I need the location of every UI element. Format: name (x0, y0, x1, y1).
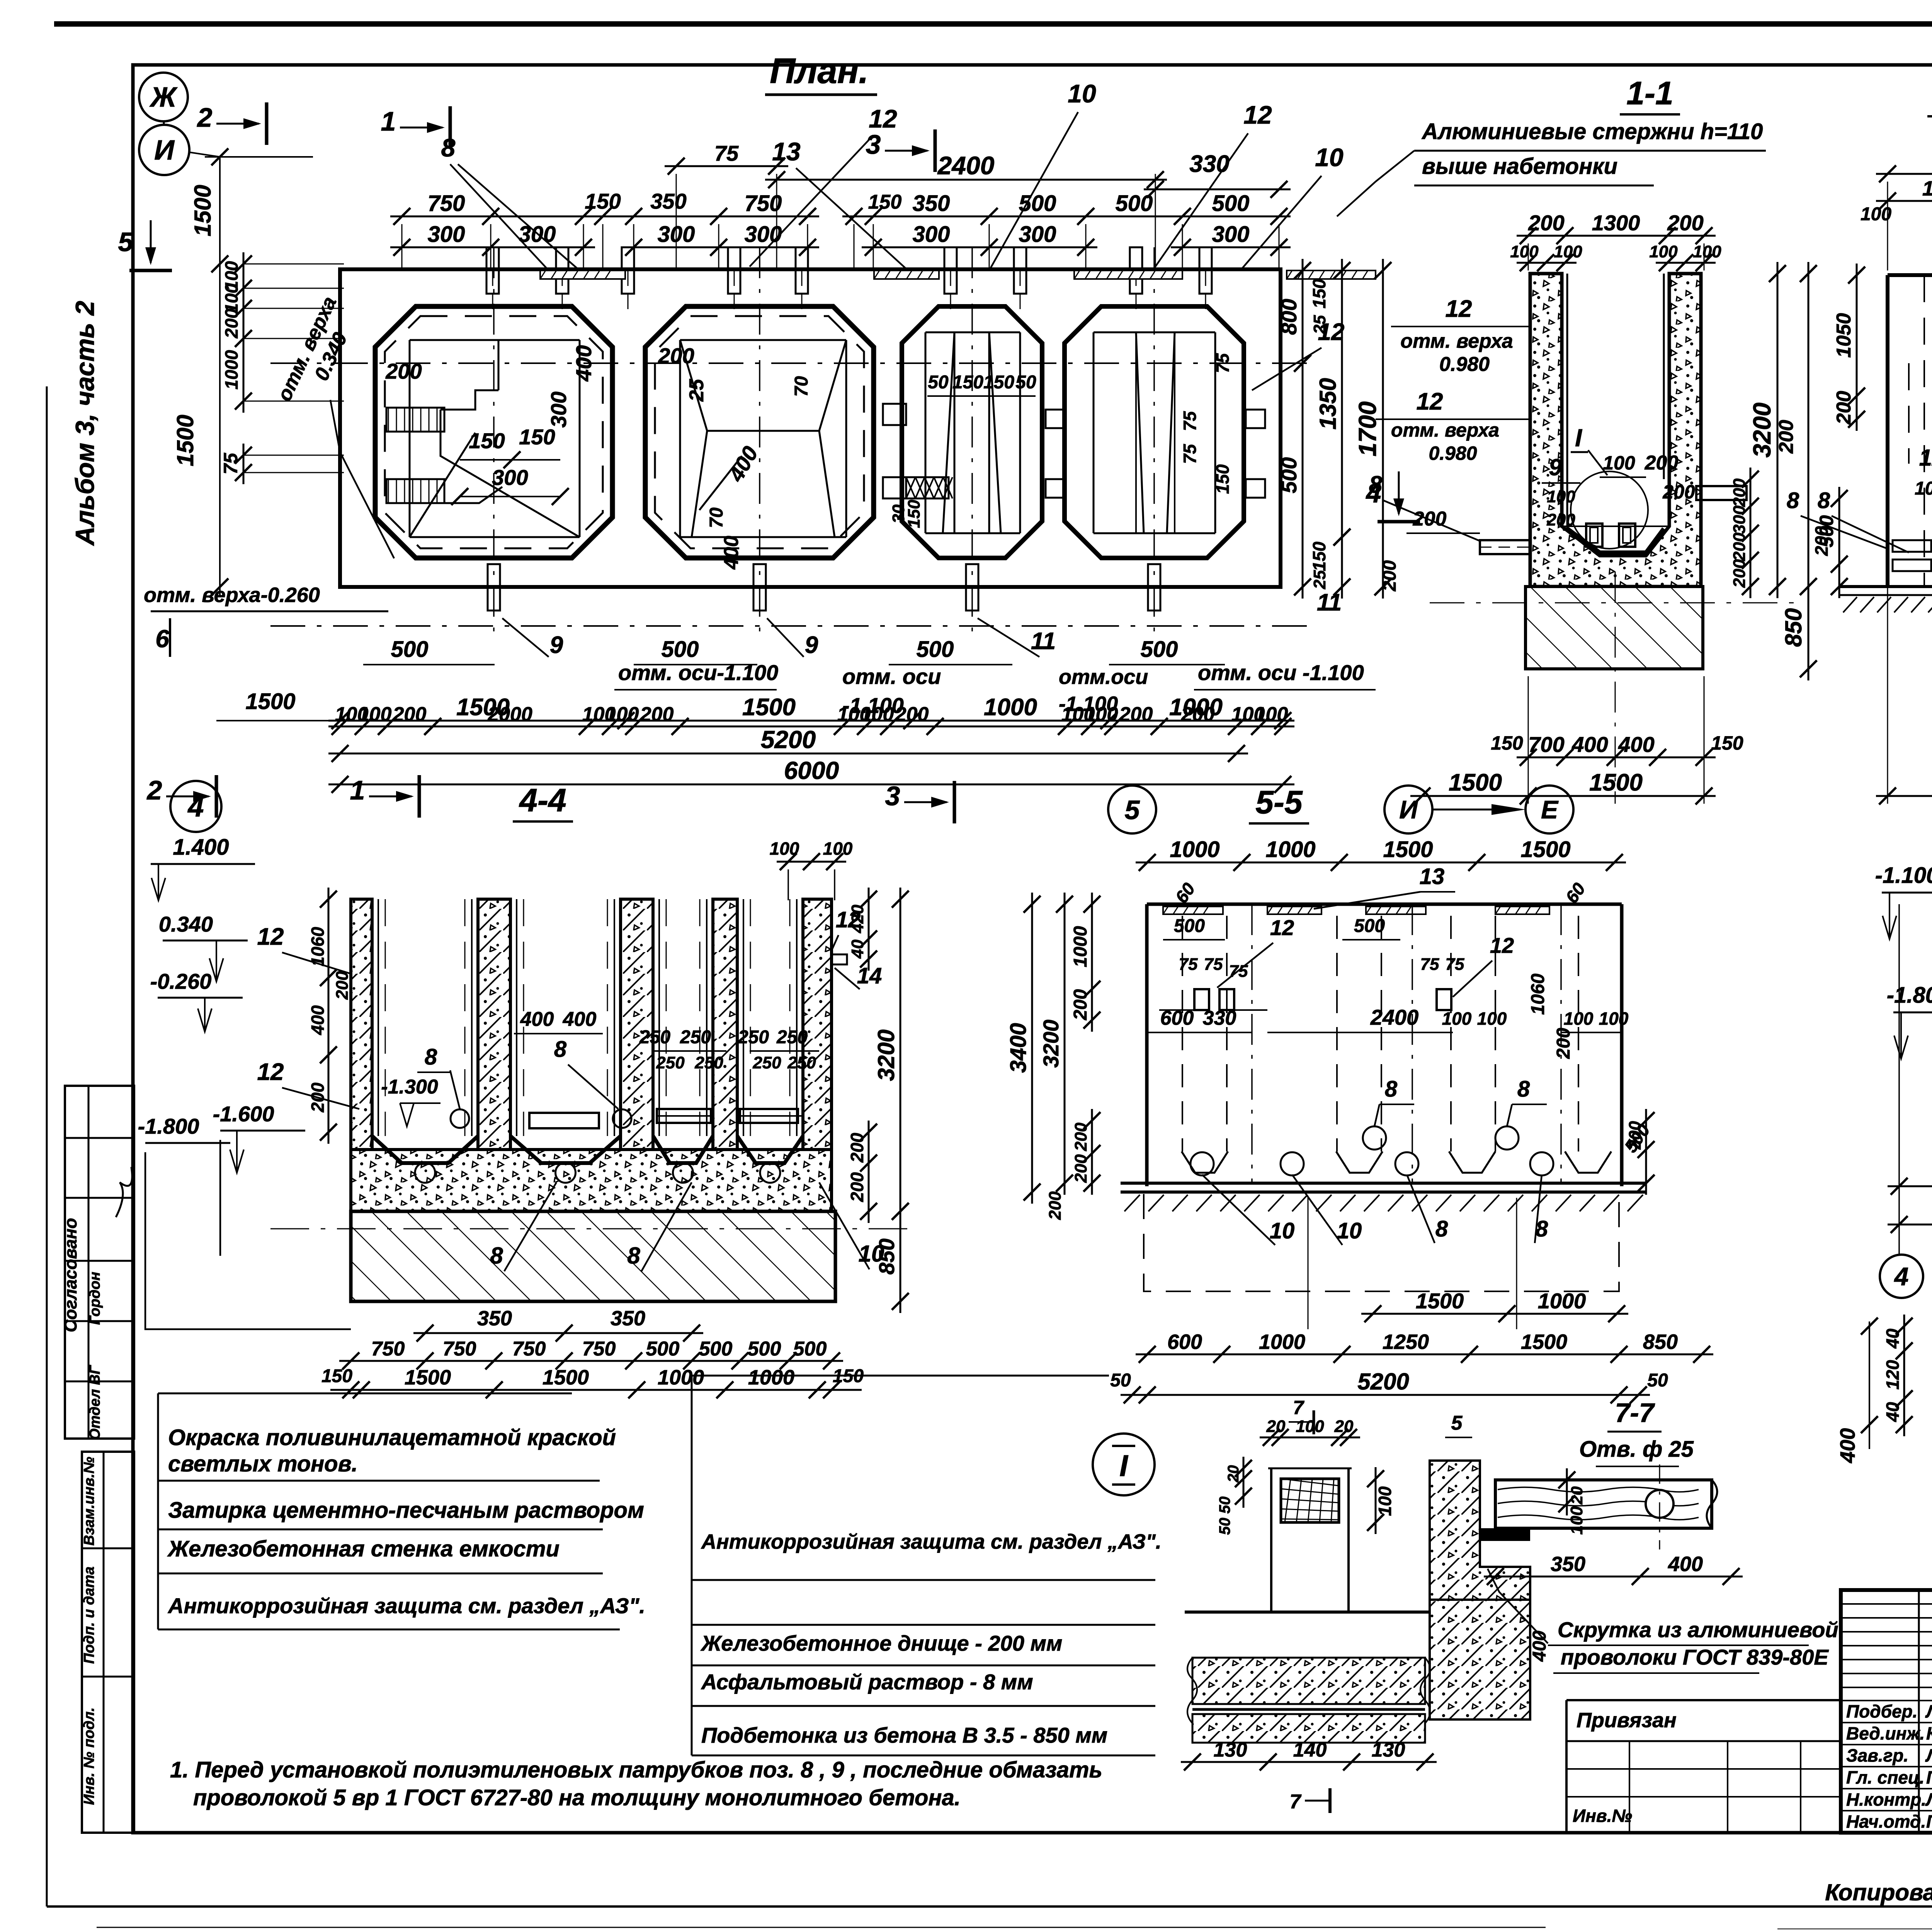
svg-text:И: И (154, 135, 175, 166)
svg-text:Асфальтовый раствор - 8 мм: Асфальтовый раствор - 8 мм (701, 1670, 1033, 1694)
svg-text:отм. оси-1.100: отм. оси-1.100 (618, 660, 778, 685)
svg-text:200: 200 (1379, 560, 1400, 592)
svg-text:1.400: 1.400 (173, 835, 229, 860)
svg-text:500: 500 (662, 637, 699, 662)
svg-text:13: 13 (772, 137, 800, 166)
svg-text:12: 12 (257, 1059, 284, 1085)
svg-text:70: 70 (706, 507, 727, 528)
svg-text:500: 500 (748, 1338, 781, 1360)
svg-text:100: 100 (1085, 703, 1118, 726)
svg-text:400: 400 (308, 1005, 328, 1035)
svg-text:1500: 1500 (172, 415, 198, 466)
svg-text:300: 300 (428, 222, 465, 247)
svg-text:1000: 1000 (984, 694, 1037, 721)
svg-text:600: 600 (1160, 1007, 1194, 1029)
svg-text:500: 500 (793, 1338, 827, 1360)
svg-text:Алюминиевые стержни h=110: Алюминиевые стержни h=110 (1421, 119, 1763, 144)
svg-text:Зав.гр.: Зав.гр. (1846, 1745, 1908, 1765)
svg-text:500: 500 (1354, 916, 1385, 936)
svg-text:отм.оси: отм.оси (1059, 665, 1148, 689)
svg-text:150: 150 (1309, 541, 1329, 571)
svg-text:100: 100 (358, 703, 392, 726)
svg-text:200: 200 (847, 1133, 867, 1163)
svg-text:-1.600: -1.600 (213, 1102, 274, 1126)
svg-text:6: 6 (155, 625, 169, 653)
svg-text:7: 7 (1290, 1791, 1302, 1813)
svg-text:1500: 1500 (1589, 769, 1643, 796)
svg-text:5: 5 (1451, 1412, 1463, 1434)
svg-text:1000: 1000 (1169, 694, 1223, 721)
svg-text:75: 75 (1420, 955, 1439, 974)
svg-text:200: 200 (1833, 391, 1855, 425)
svg-text:12: 12 (1417, 388, 1443, 415)
svg-text:400: 400 (1668, 1553, 1703, 1576)
svg-text:1700: 1700 (1354, 401, 1381, 456)
svg-text:отм. верха: отм. верха (1391, 419, 1499, 441)
svg-text:1500: 1500 (543, 1366, 589, 1389)
svg-text:150: 150 (1309, 279, 1329, 308)
svg-text:4: 4 (187, 791, 204, 823)
svg-text:6000: 6000 (784, 757, 839, 784)
svg-text:40: 40 (848, 939, 867, 959)
svg-text:200: 200 (847, 1172, 867, 1202)
svg-text:12: 12 (1243, 100, 1272, 129)
svg-text:I: I (1575, 424, 1582, 452)
svg-text:9: 9 (550, 632, 563, 658)
svg-text:70: 70 (791, 376, 812, 397)
svg-text:100: 100 (1564, 1009, 1594, 1029)
svg-text:150: 150 (1491, 732, 1523, 754)
svg-text:400: 400 (563, 1008, 597, 1031)
svg-text:200: 200 (1413, 508, 1447, 530)
svg-text:8: 8 (1369, 471, 1383, 498)
svg-text:1-1: 1-1 (1626, 75, 1673, 111)
svg-text:отм. верха: отм. верха (1400, 330, 1513, 352)
svg-text:-1.100: -1.100 (1875, 863, 1932, 888)
svg-text:проволоки ГОСТ 839-80Е: проволоки ГОСТ 839-80Е (1561, 1645, 1829, 1669)
svg-text:1500: 1500 (742, 694, 796, 721)
svg-text:5-5: 5-5 (1255, 784, 1303, 820)
svg-text:I: I (1119, 1449, 1128, 1483)
svg-text:25: 25 (1310, 570, 1329, 589)
svg-text:12: 12 (1490, 933, 1514, 957)
svg-text:отм. оси: отм. оси (842, 664, 941, 689)
svg-text:Гл. спец.: Гл. спец. (1846, 1767, 1924, 1787)
svg-text:1060: 1060 (308, 927, 328, 966)
svg-text:2400: 2400 (937, 151, 995, 180)
svg-text:100: 100 (823, 838, 853, 859)
svg-text:200: 200 (1667, 211, 1703, 235)
svg-text:200: 200 (1730, 532, 1749, 561)
svg-text:10: 10 (1315, 143, 1344, 172)
svg-text:150: 150 (321, 1366, 352, 1386)
svg-text:300: 300 (1212, 222, 1250, 247)
svg-text:0.980: 0.980 (1429, 442, 1477, 464)
svg-text:1500: 1500 (245, 689, 295, 714)
svg-text:1500: 1500 (1449, 769, 1502, 796)
svg-text:1000: 1000 (1070, 926, 1091, 967)
svg-text:850: 850 (1643, 1330, 1678, 1354)
svg-text:1250: 1250 (1383, 1330, 1429, 1354)
svg-text:100: 100 (1510, 242, 1539, 261)
svg-text:0.980: 0.980 (1439, 353, 1490, 376)
svg-text:200: 200 (1775, 420, 1798, 454)
svg-text:5200: 5200 (761, 726, 816, 753)
svg-text:3400: 3400 (1006, 1023, 1031, 1073)
svg-text:250: 250 (776, 1027, 808, 1048)
svg-text:5: 5 (118, 227, 134, 257)
svg-text:1: 1 (350, 775, 365, 805)
svg-text:100: 100 (1693, 242, 1721, 261)
svg-text:3200: 3200 (1039, 1020, 1063, 1068)
svg-text:75: 75 (1446, 955, 1464, 974)
svg-text:130: 130 (1372, 1739, 1405, 1761)
svg-text:Железобетонное днище - 200 м: Железобетонное днище - 200 мм (700, 1631, 1062, 1655)
svg-text:3200: 3200 (873, 1029, 899, 1081)
svg-text:200: 200 (1645, 452, 1679, 474)
svg-text:8: 8 (441, 133, 456, 162)
svg-text:50: 50 (928, 372, 949, 393)
svg-text:1000: 1000 (1170, 837, 1219, 862)
svg-text:2400: 2400 (1370, 1005, 1419, 1029)
svg-text:100: 100 (1554, 242, 1582, 261)
svg-text:1500: 1500 (1521, 1330, 1567, 1354)
svg-text:50: 50 (1216, 1497, 1233, 1514)
svg-text:200: 200 (1528, 211, 1564, 235)
svg-text:5: 5 (1125, 795, 1140, 825)
svg-text:200: 200 (1730, 559, 1749, 588)
svg-text:13: 13 (1420, 864, 1445, 889)
svg-text:2: 2 (146, 775, 162, 805)
svg-text:500: 500 (917, 637, 954, 662)
svg-text:75: 75 (1180, 444, 1200, 464)
svg-text:10: 10 (1270, 1218, 1295, 1243)
svg-text:200: 200 (1070, 989, 1091, 1020)
svg-text:150: 150 (983, 372, 1014, 393)
svg-text:250: 250 (694, 1053, 723, 1072)
svg-text:330: 330 (1203, 1007, 1236, 1029)
svg-text:Нач.отд.: Нач.отд. (1846, 1811, 1926, 1832)
svg-text:Ж: Ж (149, 82, 178, 113)
svg-text:200: 200 (333, 971, 352, 1000)
svg-text:75: 75 (1180, 411, 1200, 431)
svg-text:150: 150 (1213, 464, 1233, 494)
svg-text:40: 40 (1883, 1328, 1903, 1349)
svg-text:200: 200 (385, 359, 422, 383)
svg-text:Инв. № подл.: Инв. № подл. (81, 1708, 97, 1805)
svg-text:8: 8 (627, 1243, 640, 1269)
svg-text:11: 11 (1031, 628, 1056, 655)
svg-text:350: 350 (477, 1307, 512, 1330)
svg-text:100: 100 (1375, 1486, 1395, 1516)
svg-text:500: 500 (646, 1338, 680, 1360)
svg-text:250: 250 (639, 1027, 670, 1048)
svg-text:12: 12 (1318, 319, 1345, 345)
svg-text:200: 200 (1046, 1191, 1065, 1220)
svg-text:400: 400 (571, 345, 596, 381)
svg-text:отм. верха-0.260: отм. верха-0.260 (144, 583, 320, 607)
svg-text:Подбетонка из бетона В 3.5: Подбетонка из бетона В 3.5 - 850 мм (701, 1723, 1107, 1747)
svg-text:Пронин: Пронин (1926, 1767, 1932, 1787)
svg-text:14: 14 (857, 963, 882, 988)
svg-text:-1.800: -1.800 (138, 1114, 199, 1138)
svg-text:20: 20 (1266, 1417, 1286, 1436)
svg-text:9: 9 (805, 632, 818, 658)
svg-text:12: 12 (257, 923, 284, 950)
svg-text:500: 500 (1212, 191, 1250, 216)
svg-text:130: 130 (1214, 1739, 1247, 1761)
svg-text:300: 300 (1019, 222, 1056, 247)
svg-text:750: 750 (582, 1338, 616, 1360)
svg-text:100: 100 (1567, 1506, 1586, 1535)
svg-text:350: 350 (1551, 1553, 1585, 1576)
svg-text:200: 200 (1119, 703, 1153, 726)
svg-text:150: 150 (905, 500, 923, 528)
svg-text:400: 400 (1836, 1428, 1859, 1463)
svg-text:Е: Е (1541, 795, 1559, 824)
svg-text:150: 150 (469, 429, 505, 453)
svg-text:Капустин: Капустин (1926, 1723, 1932, 1743)
svg-text:9: 9 (1549, 454, 1562, 480)
svg-text:800: 800 (1277, 299, 1301, 335)
svg-text:1000: 1000 (1922, 177, 1932, 200)
svg-text:12: 12 (836, 907, 861, 932)
svg-text:850: 850 (1781, 608, 1806, 647)
svg-text:1000: 1000 (1538, 1289, 1586, 1313)
svg-text:350: 350 (913, 191, 950, 216)
svg-text:4: 4 (1894, 1262, 1909, 1291)
svg-text:Вед.инж.: Вед.инж. (1846, 1723, 1925, 1743)
svg-text:0.340: 0.340 (159, 912, 213, 936)
svg-text:100: 100 (1547, 487, 1575, 506)
svg-text:проволокой 5 вр 1 ГОСТ 6727-: проволокой 5 вр 1 ГОСТ 6727-80 на толщин… (193, 1785, 961, 1810)
svg-text:50: 50 (1015, 372, 1036, 393)
svg-text:250: 250 (680, 1027, 711, 1048)
svg-text:1500: 1500 (1416, 1289, 1464, 1313)
svg-text:350: 350 (650, 189, 686, 213)
svg-text:8: 8 (1818, 488, 1830, 513)
svg-text:200: 200 (1071, 1122, 1090, 1151)
svg-text:Лазарева: Лазарева (1925, 1789, 1932, 1810)
svg-text:200: 200 (1626, 1121, 1645, 1150)
svg-text:8: 8 (1787, 488, 1799, 513)
svg-text:10: 10 (1337, 1218, 1362, 1243)
svg-text:100: 100 (1442, 1009, 1472, 1029)
svg-text:-1.300: -1.300 (381, 1076, 438, 1098)
svg-text:Письман: Письман (1926, 1811, 1932, 1832)
svg-text:100: 100 (770, 838, 799, 859)
svg-text:1500: 1500 (1383, 837, 1433, 862)
svg-text:отм. оси -1.100: отм. оси -1.100 (1198, 660, 1364, 685)
svg-text:500: 500 (1019, 191, 1056, 216)
svg-text:600: 600 (1167, 1330, 1202, 1354)
svg-text:12: 12 (1919, 445, 1932, 471)
svg-text:75: 75 (220, 452, 241, 474)
svg-text:250: 250 (738, 1027, 769, 1048)
svg-text:750: 750 (428, 191, 465, 216)
svg-text:500: 500 (699, 1338, 733, 1360)
svg-text:Гордон: Гордон (87, 1272, 103, 1325)
svg-text:100: 100 (1915, 478, 1932, 499)
svg-text:200: 200 (658, 344, 694, 368)
svg-text:75: 75 (714, 141, 739, 165)
svg-text:700: 700 (1528, 732, 1564, 757)
svg-text:2: 2 (197, 102, 213, 133)
svg-text:Подбер.: Подбер. (1846, 1701, 1918, 1721)
svg-text:1000: 1000 (748, 1366, 794, 1389)
svg-text:20: 20 (1225, 1465, 1242, 1483)
svg-text:200: 200 (640, 703, 674, 726)
svg-text:40: 40 (1883, 1402, 1903, 1422)
svg-text:300: 300 (913, 222, 950, 247)
svg-text:100: 100 (1603, 452, 1635, 474)
svg-text:75: 75 (1204, 955, 1223, 974)
svg-text:75: 75 (1229, 962, 1248, 981)
svg-text:Отдел ВГ: Отдел ВГ (87, 1365, 103, 1440)
svg-text:Отв. ф 25: Отв. ф 25 (1579, 1437, 1694, 1462)
svg-text:Антикоррозийная защита см. р: Антикоррозийная защита см. раздел „АЗ". (167, 1594, 645, 1618)
svg-text:Привязан: Привязан (1577, 1709, 1677, 1732)
svg-text:выше набетонки: выше набетонки (1422, 154, 1617, 179)
svg-text:150: 150 (519, 425, 555, 449)
svg-text:150: 150 (952, 372, 983, 393)
svg-text:Левина: Левина (1925, 1701, 1932, 1721)
svg-text:1000: 1000 (1259, 1330, 1305, 1354)
svg-text:7: 7 (1293, 1397, 1304, 1418)
svg-text:Скрутка из алюминиевой: Скрутка из алюминиевой (1558, 1617, 1838, 1642)
svg-text:светлых тонов.: светлых тонов. (168, 1451, 358, 1476)
svg-text:1500: 1500 (190, 185, 216, 236)
svg-text:1300: 1300 (1592, 211, 1640, 235)
svg-text:8: 8 (554, 1037, 567, 1062)
svg-text:Железобетонная стенка емкос: Железобетонная стенка емкости (167, 1536, 560, 1561)
svg-text:100: 100 (1861, 204, 1891, 224)
svg-text:Н.контр.: Н.контр. (1846, 1789, 1926, 1810)
svg-text:12: 12 (1270, 915, 1294, 940)
svg-text:100: 100 (1296, 1417, 1324, 1436)
svg-text:12: 12 (1446, 296, 1472, 322)
svg-text:И: И (1399, 795, 1418, 824)
svg-text:-0.260: -0.260 (150, 969, 212, 993)
svg-text:150: 150 (1711, 732, 1743, 754)
svg-text:500: 500 (1116, 191, 1153, 216)
svg-text:100: 100 (1477, 1009, 1507, 1029)
svg-text:Окраска поливинилацетатной к: Окраска поливинилацетатной краской (168, 1425, 616, 1450)
svg-text:400: 400 (1571, 732, 1608, 757)
svg-text:250: 250 (752, 1053, 781, 1072)
svg-text:3: 3 (885, 781, 900, 811)
svg-text:1050: 1050 (1833, 313, 1855, 358)
svg-text:100: 100 (1255, 703, 1288, 726)
svg-text:8: 8 (425, 1044, 437, 1070)
svg-text:8: 8 (490, 1243, 503, 1269)
svg-text:150: 150 (868, 191, 902, 213)
svg-text:-1.800: -1.800 (1887, 983, 1932, 1008)
svg-text:Подп. и дата: Подп. и дата (81, 1566, 97, 1664)
svg-text:Затирка цементно-песчаным ра: Затирка цементно-песчаным раствором (168, 1498, 644, 1523)
svg-text:Копировал Исаева: Копировал Исаева (1825, 1879, 1932, 1905)
svg-text:20: 20 (1568, 1486, 1586, 1505)
svg-text:140: 140 (1293, 1739, 1327, 1761)
svg-text:300: 300 (546, 391, 571, 427)
svg-text:1060: 1060 (1528, 973, 1548, 1015)
svg-text:Антикоррозийная защита см. р: Антикоррозийная защита см. раздел „АЗ". (701, 1530, 1162, 1553)
svg-text:750: 750 (371, 1338, 405, 1360)
svg-text:250: 250 (656, 1053, 685, 1072)
svg-text:200: 200 (1811, 526, 1832, 556)
svg-text:12: 12 (869, 104, 897, 133)
svg-text:400: 400 (720, 536, 743, 570)
svg-text:50: 50 (1110, 1370, 1131, 1391)
svg-text:3: 3 (866, 129, 881, 160)
svg-text:1000: 1000 (1265, 837, 1315, 862)
svg-text:850: 850 (874, 1238, 899, 1274)
svg-text:500: 500 (1174, 916, 1205, 936)
svg-text:10: 10 (1068, 79, 1096, 108)
svg-text:4-4: 4-4 (519, 782, 566, 818)
svg-text:250: 250 (787, 1053, 816, 1072)
svg-text:100: 100 (605, 703, 639, 726)
svg-text:3200: 3200 (1748, 403, 1776, 457)
svg-text:120: 120 (1883, 1360, 1903, 1389)
svg-text:200: 200 (1730, 478, 1749, 507)
svg-text:750: 750 (443, 1338, 476, 1360)
svg-text:50: 50 (1216, 1518, 1233, 1535)
svg-text:200: 200 (221, 308, 241, 338)
svg-text:Левина: Левина (1925, 1745, 1932, 1765)
svg-text:8: 8 (1517, 1077, 1530, 1102)
svg-text:5200: 5200 (1357, 1369, 1409, 1395)
svg-text:200: 200 (1071, 1154, 1090, 1183)
svg-text:200: 200 (1546, 510, 1575, 529)
svg-text:750: 750 (512, 1338, 546, 1360)
svg-text:350: 350 (611, 1307, 645, 1330)
svg-text:1500: 1500 (405, 1366, 451, 1389)
svg-text:Согласовано: Согласовано (61, 1218, 80, 1332)
svg-text:Взам.инв.№: Взам.инв.№ (81, 1457, 97, 1546)
svg-text:200: 200 (308, 1082, 328, 1112)
svg-text:7-7: 7-7 (1615, 1398, 1655, 1428)
svg-text:400: 400 (520, 1008, 554, 1031)
svg-text:1500: 1500 (1520, 837, 1570, 862)
svg-text:1350: 1350 (1315, 378, 1341, 429)
svg-text:Инв.№: Инв.№ (1573, 1806, 1632, 1826)
svg-text:100: 100 (861, 703, 894, 726)
svg-text:75: 75 (1213, 353, 1233, 373)
svg-text:500: 500 (1141, 637, 1178, 662)
svg-text:100: 100 (1599, 1009, 1629, 1029)
svg-text:25: 25 (685, 379, 708, 402)
svg-text:75: 75 (1179, 955, 1198, 974)
svg-text:8: 8 (1385, 1077, 1398, 1102)
svg-text:50: 50 (1647, 1370, 1668, 1391)
svg-text:1: 1 (381, 106, 396, 136)
svg-text:План.: План. (770, 51, 869, 91)
svg-text:200: 200 (393, 703, 427, 726)
svg-text:1500: 1500 (456, 694, 510, 721)
svg-text:500: 500 (1277, 457, 1301, 493)
svg-text:300: 300 (492, 465, 528, 490)
svg-text:400: 400 (1618, 732, 1654, 757)
svg-text:1000: 1000 (221, 350, 241, 389)
svg-text:330: 330 (1189, 151, 1229, 177)
svg-text:100: 100 (1649, 242, 1678, 261)
svg-text:8: 8 (1435, 1216, 1448, 1242)
svg-text:11: 11 (1317, 589, 1342, 616)
svg-text:500: 500 (391, 637, 429, 662)
svg-text:20: 20 (1334, 1417, 1354, 1436)
svg-text:1000: 1000 (658, 1366, 704, 1389)
